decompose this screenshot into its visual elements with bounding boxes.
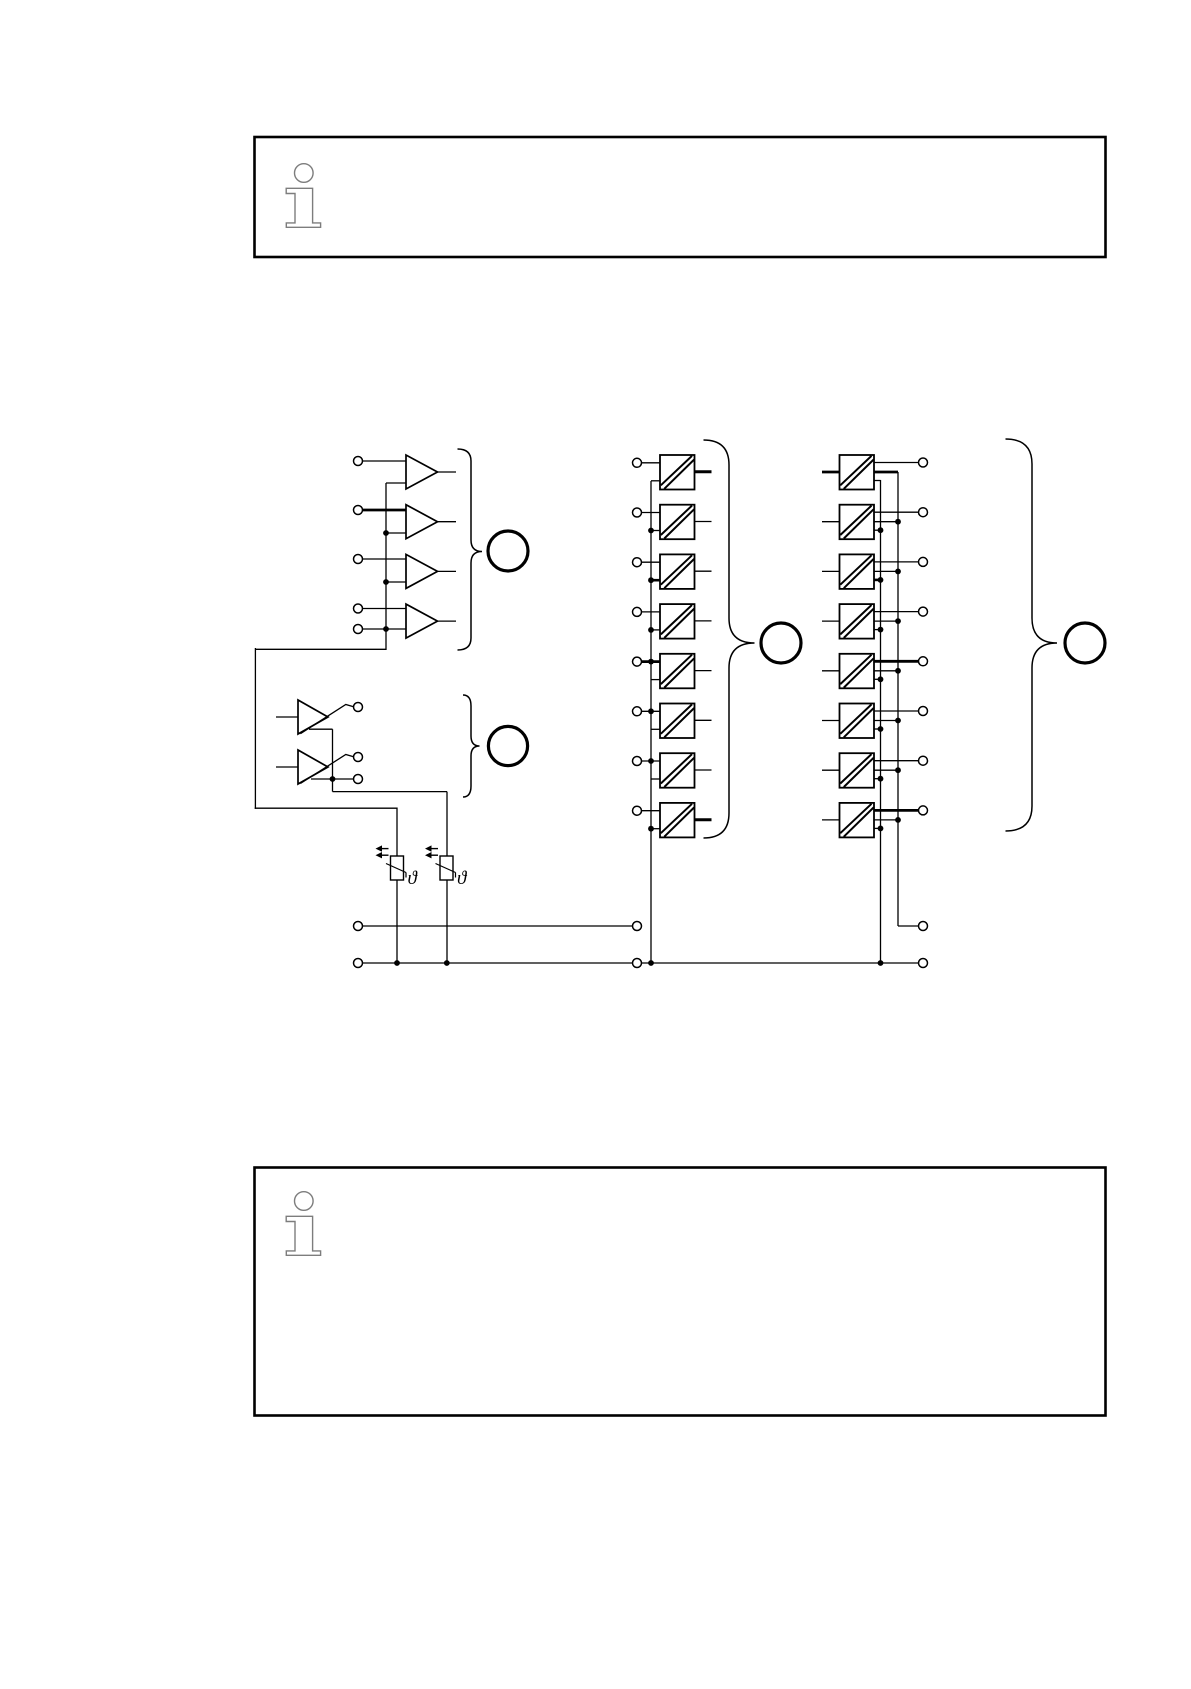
optocoupler U4 xyxy=(660,604,695,639)
optocoupler U2 xyxy=(660,505,695,540)
wire U6 output xyxy=(695,719,712,721)
wire U11 output xyxy=(874,561,919,563)
wire U7 lower xyxy=(651,778,660,780)
wire U16 low to bus1 xyxy=(874,827,881,829)
terminal U13 output circle xyxy=(919,657,928,666)
wire U10 mid to bus2 xyxy=(874,521,898,523)
terminal X7 circle xyxy=(354,753,363,762)
wire supply row 1 left xyxy=(362,925,633,927)
junction xyxy=(878,726,884,732)
optocoupler U16 xyxy=(840,803,875,838)
wire bus corner to buffer V1 lower input xyxy=(386,482,406,484)
terminal U6 input circle xyxy=(633,707,642,716)
terminal U16 output circle xyxy=(919,806,928,815)
terminal row1 mid circle xyxy=(633,922,642,931)
wire bus stub to buffer lower input xyxy=(386,581,406,583)
terminal row1 left circle xyxy=(354,922,363,931)
wire input 4 xyxy=(362,608,407,610)
callout circle B xyxy=(488,726,527,765)
wire U8 lower xyxy=(651,828,660,830)
junction xyxy=(383,579,389,585)
terminal X2 circle xyxy=(354,506,363,515)
wire U9 output xyxy=(874,462,919,464)
wire U12 output xyxy=(874,611,919,613)
receiver V5 xyxy=(298,700,328,734)
junction xyxy=(394,960,400,966)
junction xyxy=(895,817,901,823)
junction xyxy=(648,708,654,714)
wire U7 output xyxy=(695,769,712,771)
junction xyxy=(648,758,654,764)
wire supply row 2 xyxy=(362,962,919,964)
terminal U10 output circle xyxy=(919,508,928,517)
wire input 1 xyxy=(362,460,407,462)
terminal U3 input circle xyxy=(633,558,642,567)
terminal X6 circle xyxy=(354,703,363,712)
wire output V1 xyxy=(438,471,457,473)
optocoupler U7 xyxy=(660,753,695,788)
wire U7 input xyxy=(642,760,661,762)
wire U3 output xyxy=(695,570,712,572)
wire U6 lower xyxy=(651,728,660,730)
optocoupler U15 xyxy=(840,753,875,788)
wire U2 lower xyxy=(651,530,660,532)
wire U5 lower xyxy=(651,679,660,681)
optocoupler U9 xyxy=(840,455,875,490)
callout circle A xyxy=(488,531,528,571)
optocoupler U6 xyxy=(660,704,695,739)
junction xyxy=(648,577,654,583)
optocoupler U13 xyxy=(840,654,875,689)
brace (middle column) xyxy=(704,440,755,838)
terminal X3 circle xyxy=(354,555,363,564)
wire U12 mid to bus2 xyxy=(874,620,898,622)
bus wire 2 (right column) xyxy=(897,472,899,926)
wire vertical V5/V6 common xyxy=(332,729,334,791)
wire input V6 xyxy=(276,766,298,768)
wire U10 input xyxy=(822,521,840,523)
terminal U4 input circle xyxy=(633,607,642,616)
wire U10 output xyxy=(874,511,919,513)
wire U11 mid to bus2 xyxy=(874,570,898,572)
info icon 1 xyxy=(286,164,320,228)
wire U16 output xyxy=(874,809,919,812)
buffer V1 xyxy=(406,455,438,489)
terminal row1 right circle xyxy=(919,922,928,931)
junction xyxy=(895,767,901,773)
optocoupler U10 xyxy=(840,505,875,540)
junction xyxy=(895,618,901,624)
wire U13 low to bus1 xyxy=(874,678,881,680)
wire U11 input xyxy=(822,570,840,572)
wire RT1 bottom xyxy=(396,880,398,963)
wire U8 input xyxy=(642,810,661,812)
optocoupler U11 xyxy=(840,554,875,589)
info note box 2 (bottom) xyxy=(255,1168,1106,1416)
wire U1 input xyxy=(642,462,661,464)
terminal row2 mid circle xyxy=(633,959,642,968)
terminal row2 left circle xyxy=(354,959,363,968)
wire U9 to bus1 xyxy=(874,480,881,482)
bus wire (middle column) xyxy=(650,481,652,963)
wire group A bus down-left xyxy=(255,648,386,650)
terminal U8 input circle xyxy=(633,806,642,815)
optocoupler U14 xyxy=(840,704,875,739)
wire U14 low to bus1 xyxy=(874,728,881,730)
wire U15 low to bus1 xyxy=(874,778,881,780)
receiver V6 xyxy=(298,750,328,784)
info note box 1 (top) xyxy=(255,137,1106,257)
junction xyxy=(895,519,901,525)
wire left vertical xyxy=(254,648,256,809)
wire U13 mid to bus2 xyxy=(874,670,898,672)
wire U15 output xyxy=(874,760,919,762)
wire U15 mid to bus2 xyxy=(874,769,898,771)
wire terminal X5 to bus and buffer V4 lower input xyxy=(362,628,407,630)
optocoupler U5 xyxy=(660,654,695,689)
wire V5 diagonal to terminal X6 xyxy=(300,705,353,734)
wire RT2 bottom xyxy=(446,880,448,963)
wire U4 lower xyxy=(651,629,660,631)
wire bus stub to buffer lower input xyxy=(386,532,406,534)
brace (group B) xyxy=(463,695,480,797)
wire U3 lower xyxy=(651,579,660,582)
wire U6 input xyxy=(642,710,661,712)
wire input V5 xyxy=(276,716,298,718)
wire U2 output xyxy=(695,521,712,523)
junction xyxy=(878,776,884,782)
callout circle C xyxy=(761,623,801,663)
terminal U7 input circle xyxy=(633,757,642,766)
junction xyxy=(878,577,884,583)
junction xyxy=(895,718,901,724)
junction xyxy=(895,569,901,575)
wire down to RT1 xyxy=(396,808,398,857)
optocoupler U8 xyxy=(660,803,695,838)
junction xyxy=(648,826,654,832)
wire U1 lower xyxy=(651,480,660,482)
brace (group A channels) xyxy=(458,449,483,650)
junction xyxy=(648,528,654,534)
terminal U5 input circle xyxy=(633,657,642,666)
wire U13 input xyxy=(822,670,840,672)
wire U1 output xyxy=(695,470,712,473)
thermistor RT2 xyxy=(425,845,456,880)
terminal X4 circle xyxy=(354,604,363,613)
wire U14 output xyxy=(874,710,919,712)
wire U8 output xyxy=(695,818,712,821)
wire U4 input xyxy=(642,611,661,613)
wire V6 lower edge to terminal X8 xyxy=(311,778,354,780)
junction xyxy=(878,826,884,832)
wire bus2 to terminal xyxy=(898,925,919,927)
junction xyxy=(648,960,654,966)
optocoupler U3 xyxy=(660,554,695,589)
terminal U11 output circle xyxy=(919,557,928,566)
junction xyxy=(895,668,901,674)
wire U9 input xyxy=(822,471,840,474)
junction xyxy=(383,530,389,536)
wire U10 low to bus1 xyxy=(874,529,881,531)
wire input 3 xyxy=(362,558,407,560)
terminal U2 input circle xyxy=(633,508,642,517)
wire output V3 xyxy=(438,570,457,572)
junction xyxy=(330,776,336,782)
wire output V4 xyxy=(438,620,457,622)
junction xyxy=(383,626,389,632)
bus wire 1 (right column) xyxy=(880,480,882,963)
wire U4 output xyxy=(695,620,712,622)
terminal U12 output circle xyxy=(919,607,928,616)
wire U9 to bus2 xyxy=(874,471,898,474)
terminal X8 circle xyxy=(354,775,363,784)
terminal U14 output circle xyxy=(919,707,928,716)
wire U14 mid to bus2 xyxy=(874,720,898,722)
wire U14 input xyxy=(822,720,840,722)
wire U3 input xyxy=(642,561,661,563)
terminal U1 input circle xyxy=(633,458,642,467)
brace (right column) xyxy=(1006,439,1058,831)
wire left horizontal to thermistor RT1 xyxy=(255,807,397,809)
wire U12 input xyxy=(822,620,840,622)
thermistor RT1 xyxy=(376,845,407,880)
terminal X5 circle xyxy=(354,625,363,634)
junction xyxy=(878,676,884,682)
terminal U15 output circle xyxy=(919,756,928,765)
wire input 2 xyxy=(362,509,407,512)
junction xyxy=(878,960,884,966)
bus wire (group A common) xyxy=(385,483,387,650)
terminal row2 right circle xyxy=(919,959,928,968)
wire U15 input xyxy=(822,769,840,771)
wire U12 low to bus1 xyxy=(874,629,881,631)
terminal X1 circle xyxy=(354,457,363,466)
wire U5 input xyxy=(642,660,661,663)
wire U16 mid to bus2 xyxy=(874,819,898,821)
wire U16 input xyxy=(822,819,840,821)
wire V6 diagonal to terminal X7 xyxy=(300,755,353,784)
buffer V2 xyxy=(406,505,438,539)
wire output V2 xyxy=(438,521,457,523)
buffer V4 xyxy=(406,604,438,638)
wire U11 low to bus1 xyxy=(874,579,881,582)
info icon 2 xyxy=(286,1192,320,1256)
wire to thermistor RT2 xyxy=(333,791,448,793)
junction xyxy=(648,627,654,633)
wire U5 output xyxy=(695,670,712,672)
callout circle D xyxy=(1065,623,1105,663)
optocoupler U1 xyxy=(660,455,695,490)
junction xyxy=(878,627,884,633)
wire V5 tap xyxy=(309,728,333,730)
optocoupler U12 xyxy=(840,604,875,639)
junction xyxy=(444,960,450,966)
junction xyxy=(878,527,884,533)
wire U2 input xyxy=(642,512,661,514)
terminal U9 output circle xyxy=(919,458,928,467)
wire U13 output xyxy=(874,660,919,663)
junction xyxy=(648,659,654,665)
buffer V3 xyxy=(406,554,438,588)
